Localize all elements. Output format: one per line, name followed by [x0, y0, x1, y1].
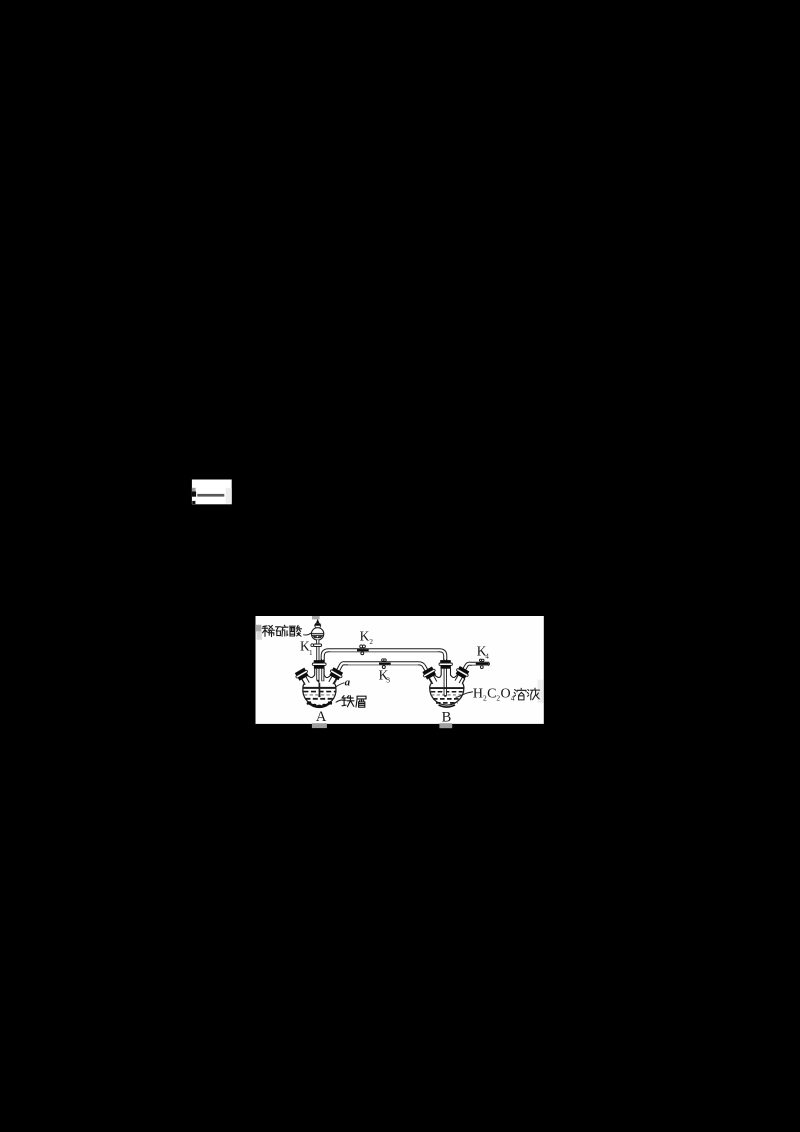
gas inlet tube inside flask A neck [321, 659, 324, 681]
svg-text:3: 3 [386, 676, 390, 684]
wire: K3 tube from flask A right neck to flask B left neck [337, 663, 429, 673]
CJK label: tie (iron) [342, 696, 354, 707]
label a with leader [336, 677, 351, 689]
stopcock K1 [311, 644, 322, 647]
flask A liquid surface line [303, 687, 336, 689]
flask A right neck stopper [325, 667, 344, 686]
main diagram panel [256, 616, 544, 724]
svg-text:O: O [501, 687, 511, 702]
svg-text:C: C [487, 687, 496, 702]
gray tab below A [312, 723, 327, 728]
flask B body [429, 669, 465, 707]
svg-text:B: B [442, 709, 452, 725]
blank-line snippet box [192, 480, 232, 505]
CJK label: rong (dissolve) [514, 688, 526, 700]
flask A liquid dashes [303, 692, 335, 699]
svg-text:1: 1 [309, 649, 313, 657]
label H2C2O4 [473, 687, 515, 703]
flask A left neck and stopper [294, 667, 313, 687]
funnel stem above stopcock [316, 640, 319, 644]
label K1 [300, 638, 313, 657]
wire: K2 gas tube from flask A to flask B [323, 650, 446, 661]
label K2 [360, 629, 374, 646]
label K4 [477, 643, 489, 660]
dropping funnel bulb [311, 619, 323, 640]
iron filings in flask A [306, 701, 333, 708]
valve K3 on middle tube [379, 659, 391, 669]
svg-text:4: 4 [485, 653, 489, 661]
flask B right neck stopper [451, 666, 470, 685]
svg-text:H: H [473, 687, 483, 702]
CJK label: xie (filings) [356, 696, 366, 707]
leader line for oxalic acid label [456, 692, 473, 698]
svg-text:4: 4 [511, 694, 515, 703]
CJK label: liu (sulfur) [276, 625, 288, 636]
funnel stem into flask A [316, 646, 320, 697]
flask B liquid surface line [430, 687, 464, 689]
label K3 [379, 667, 391, 684]
flask B liquid dashes [431, 692, 463, 707]
gray tab above funnel [312, 616, 320, 619]
svg-text:2: 2 [369, 638, 373, 646]
svg-text:a: a [345, 677, 351, 689]
gray tab below B [439, 723, 452, 728]
svg-text:A: A [316, 709, 327, 725]
flask A centre stopper [312, 660, 326, 669]
valve K2 on top tube [357, 645, 369, 655]
CJK label: ye (liquid) [527, 688, 539, 700]
valve K4 on outlet tube [476, 659, 490, 668]
flask B left neck stopper [422, 666, 441, 686]
flask B centre stopper [439, 660, 452, 669]
leader line for iron filings label [336, 700, 343, 703]
wire: K4 outlet tube from flask B right neck [462, 664, 489, 674]
svg-text:K: K [360, 629, 370, 644]
CJK label: suan (acid) [289, 625, 301, 636]
leader line for dilute sulfuric acid label [303, 633, 312, 635]
delivery tube inside flask B [444, 659, 447, 697]
flask A body [302, 669, 337, 707]
CJK label: xi (dilute) [262, 625, 274, 636]
